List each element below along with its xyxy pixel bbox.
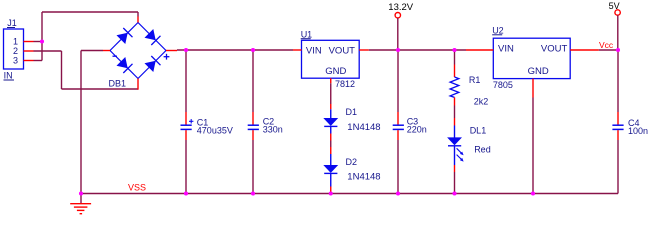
svg-text:VIN: VIN	[498, 44, 514, 55]
svg-text:VSS: VSS	[128, 183, 146, 193]
wire U2 GND to VSS	[532, 98, 534, 194]
node dot rail R1	[452, 48, 456, 52]
svg-text:1N4148: 1N4148	[347, 122, 380, 133]
pin 2 stub of J1	[24, 50, 34, 52]
wire VSS rail	[81, 193, 618, 195]
capacitor C1	[181, 112, 233, 140]
node dot VSS DL1	[452, 191, 456, 195]
U1 GND pin stub	[330, 78, 332, 83]
svg-text:IN: IN	[4, 71, 13, 81]
ground	[70, 194, 91, 214]
wire drop to DB1 top pin	[137, 12, 139, 17]
DB1 bottom pin stub	[137, 79, 139, 90]
U1 VIN pin stub	[293, 49, 302, 51]
wire pin3 to vertical	[34, 60, 43, 62]
svg-text:220n: 220n	[407, 125, 427, 135]
diode L->T	[117, 33, 127, 43]
power terminal 5V	[609, 1, 621, 50]
wire pin2 to DB1 bottom	[62, 88, 139, 90]
svg-text:2k2: 2k2	[474, 96, 489, 106]
svg-text:DL1: DL1	[470, 125, 487, 135]
svg-text:VOUT: VOUT	[541, 44, 568, 55]
regulator U2 7805	[492, 25, 570, 89]
node dot rail C1	[184, 48, 188, 52]
svg-text:7812: 7812	[335, 79, 355, 89]
DB1 left pin stub	[103, 50, 110, 52]
connector J1	[4, 18, 24, 81]
wire R1 to DL1	[454, 106, 456, 119]
U2 VIN pin stub	[466, 49, 493, 51]
plus mark	[164, 56, 170, 58]
wire DL1 to VSS	[454, 172, 456, 194]
svg-text:Red: Red	[474, 144, 491, 154]
node dot VSS ground	[79, 191, 83, 195]
wire pin1 to node	[34, 41, 43, 43]
U2 VOUT pin stub	[570, 49, 599, 51]
svg-text:1: 1	[13, 36, 18, 46]
wire U1 VOUT to U2 VIN	[369, 49, 466, 51]
node dot VSS C1	[184, 191, 188, 195]
capacitor C3	[393, 112, 427, 140]
wire U1 GND down	[330, 83, 332, 104]
svg-text:VIN: VIN	[306, 45, 322, 56]
wire D1 to D2	[330, 141, 332, 148]
svg-text:DB1: DB1	[109, 78, 127, 88]
diode T->R	[145, 30, 155, 40]
node dot VSS C2	[251, 191, 255, 195]
svg-text:U1: U1	[301, 29, 313, 39]
svg-text:GND: GND	[528, 66, 549, 77]
pin 1 stub of J1	[24, 41, 34, 43]
node J1 pin1 junction dot	[40, 39, 44, 43]
svg-text:D2: D2	[346, 157, 358, 167]
wire main rail DB1 to U1	[177, 49, 293, 51]
wire pin2 horizontal	[34, 50, 62, 52]
wire pin2 vertical	[61, 51, 63, 89]
DB1 top pin stub	[137, 17, 139, 23]
wire top rail to DB1 top	[42, 11, 138, 13]
DB1 right pin stub	[166, 50, 177, 52]
regulator U1 7812	[301, 29, 360, 89]
node dot VSS C3	[396, 191, 400, 195]
svg-text:100n: 100n	[628, 126, 648, 136]
wire C4 branch upper	[617, 50, 619, 112]
wire ground column vertical	[80, 51, 82, 194]
wire C3 branch upper	[397, 50, 399, 112]
pin 3 stub of J1	[24, 60, 34, 62]
node dot rail 5V	[616, 48, 620, 52]
svg-text:1N4148: 1N4148	[347, 172, 380, 183]
node dot VSS U2 GND	[531, 191, 535, 195]
LED DL1 Red	[447, 118, 491, 172]
minus mark	[113, 55, 118, 57]
wire C1 branch upper	[185, 50, 187, 112]
svg-text:R1: R1	[469, 75, 481, 85]
node dot VSS D2	[329, 191, 333, 195]
wire vertical pin1/pin3 tie	[41, 12, 43, 61]
diode B->R	[145, 61, 155, 71]
svg-text:D1: D1	[346, 107, 358, 117]
svg-text:330n: 330n	[263, 125, 283, 135]
svg-text:3: 3	[13, 55, 18, 65]
wire C1 branch lower	[185, 140, 187, 194]
svg-text:2: 2	[13, 46, 18, 56]
svg-text:7805: 7805	[493, 80, 513, 90]
bridge rectifier DB1	[109, 23, 170, 89]
U2 GND pin stub	[532, 79, 534, 98]
svg-text:470u35V: 470u35V	[197, 126, 233, 136]
wire C4 branch lower	[617, 140, 619, 194]
wire C3 branch lower	[397, 140, 399, 194]
svg-text:GND: GND	[325, 66, 346, 77]
resistor R1 2k2	[450, 50, 488, 106]
diode D1 1N4148	[323, 104, 380, 141]
diode D2 1N4148	[323, 147, 380, 194]
svg-text:13.2V: 13.2V	[388, 2, 413, 13]
wire C2 branch upper	[252, 50, 254, 112]
wire U2 VOUT to 5V node	[599, 49, 618, 51]
wire DB1 minus to ground column	[81, 50, 103, 52]
power terminal 13.2V	[388, 2, 413, 50]
capacitor C4	[612, 112, 648, 140]
wire C2 branch lower	[252, 140, 254, 194]
capacitor C2	[248, 112, 283, 140]
svg-text:VOUT: VOUT	[329, 45, 356, 56]
LED emission arrows	[457, 148, 462, 153]
node dot rail 13.2V	[396, 48, 400, 52]
svg-text:Vcc: Vcc	[599, 40, 614, 50]
svg-text:J1: J1	[7, 18, 17, 28]
U1 VOUT pin stub	[359, 49, 369, 51]
svg-text:U2: U2	[492, 25, 504, 35]
node dot rail C2	[251, 48, 255, 52]
diode L->B	[117, 58, 127, 68]
